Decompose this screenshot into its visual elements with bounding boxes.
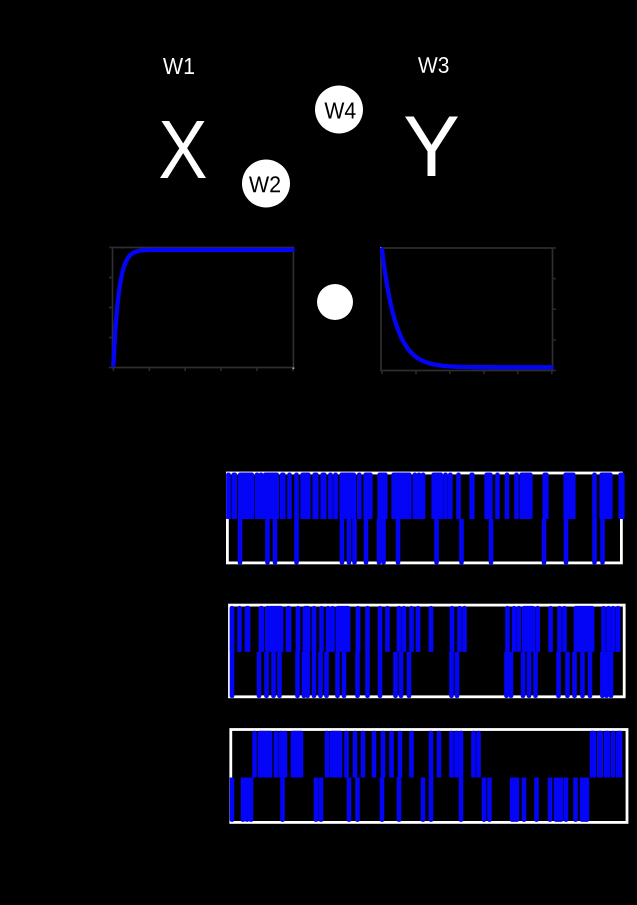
signal panel 3 trace X (top row): [252, 731, 622, 778]
signal panel 1 trace Y (bottom row): [238, 519, 605, 565]
label W1: [163, 58, 194, 74]
weight circle W2: [242, 160, 290, 208]
corner speck left plot: [292, 367, 294, 369]
activation curve X (saturating rise): [113, 250, 292, 365]
signal panel 1 frame: [227, 473, 621, 563]
signal panel 3 frame: [231, 730, 627, 823]
signal panel 1 trace X (top row): [226, 473, 624, 520]
signal panel 2 trace Y (bottom row): [230, 652, 614, 698]
signal panel 3 trace Y (bottom row): [230, 778, 590, 822]
center node circle: [317, 284, 353, 320]
signal panel 2 frame: [230, 605, 625, 697]
weight circle W4: [315, 86, 363, 134]
corner speck right plot: [380, 247, 382, 249]
label W3: [418, 57, 448, 73]
activation plot X (box): [109, 248, 293, 372]
signal panel 2 trace X (top row): [230, 606, 621, 652]
node Y: [405, 116, 458, 176]
node X: [160, 121, 206, 178]
activation curve Y (exp decay): [382, 250, 552, 368]
activation plot Y (box): [381, 248, 556, 374]
